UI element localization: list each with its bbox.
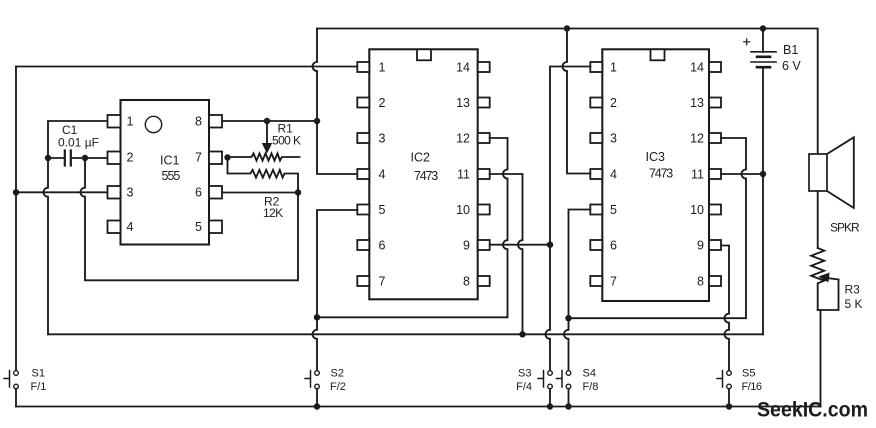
svg-text:3: 3 <box>127 185 134 199</box>
junction R1 top <box>264 118 270 124</box>
svg-text:8: 8 <box>697 274 704 288</box>
switch S3 contacts <box>548 371 553 376</box>
svg-text:13: 13 <box>690 96 704 110</box>
IC2 pin 9 stub <box>478 240 490 250</box>
junction IC2 pin9 / IC3 pin1 <box>547 242 553 248</box>
IC3 pin 1 stub <box>590 62 602 72</box>
svg-text:11: 11 <box>457 167 470 181</box>
junction IC3 pin11 / battery rail <box>760 171 766 177</box>
svg-text:7473: 7473 <box>649 167 673 181</box>
svg-text:7: 7 <box>195 150 202 164</box>
IC1 555 body <box>121 100 210 245</box>
svg-text:IC2: IC2 <box>411 151 431 165</box>
svg-text:9: 9 <box>463 238 470 252</box>
svg-text:7: 7 <box>610 274 617 288</box>
wire left rail down to S1 <box>15 67 17 371</box>
IC3 pin 2 stub <box>590 98 602 108</box>
battery B1 plus sign <box>744 39 750 45</box>
svg-text:IC3: IC3 <box>646 150 666 164</box>
junction pin3/left rail <box>13 189 19 195</box>
wire S2 to bus <box>316 389 318 407</box>
IC3 notch <box>651 49 665 60</box>
IC3 pin 9 stub <box>709 240 721 250</box>
potentiometer R1 wiper feed <box>266 121 268 145</box>
svg-text:5: 5 <box>610 203 617 217</box>
wire S5 to bus <box>728 389 730 407</box>
svg-text:10: 10 <box>456 203 470 217</box>
wire IC1 pin8 to Vcc node <box>222 120 317 122</box>
svg-text:555: 555 <box>162 169 181 183</box>
battery B1 minus lead down to ground bus <box>762 67 764 334</box>
wire S1 to bus <box>15 389 17 407</box>
svg-text:4: 4 <box>127 220 134 234</box>
svg-text:6: 6 <box>195 185 202 199</box>
potentiometer R3 body <box>811 248 824 310</box>
svg-text:4: 4 <box>610 167 617 181</box>
svg-text:10: 10 <box>690 203 704 217</box>
wire IC2 pin5 to F/2 node down to S2 <box>313 210 358 370</box>
svg-text:6: 6 <box>610 238 617 252</box>
potentiometer R1 wiper arrowhead <box>263 144 272 153</box>
speaker cone <box>827 137 854 208</box>
wire IC3 pin9 down to S5 <box>721 246 729 371</box>
IC2 pin 7 stub <box>357 276 369 286</box>
svg-text:0.01 µF: 0.01 µF <box>58 136 99 150</box>
label IC3 pin numbers <box>610 60 704 288</box>
svg-text:12K: 12K <box>263 206 283 220</box>
svg-text:B1: B1 <box>783 43 798 57</box>
switch S3 lever <box>538 371 544 388</box>
IC1 pin1 index circle <box>145 116 161 132</box>
IC2 pin 10 stub <box>478 205 490 215</box>
IC1 pin 5 stub <box>209 221 222 234</box>
capacitor C1 plates <box>65 151 71 166</box>
IC3 pin 8 stub <box>709 276 721 286</box>
switch S1 lever <box>4 371 10 388</box>
IC1 pin 1 stub <box>108 115 121 128</box>
label IC1 pin numbers <box>127 114 203 233</box>
wire speaker to R3 <box>817 191 819 248</box>
svg-text:5: 5 <box>379 203 386 217</box>
capacitor C1 right lead to IC1 pin2 <box>72 157 108 159</box>
IC3 pin 14 stub <box>709 62 721 72</box>
IC3 pin 12 stub <box>709 133 721 143</box>
svg-text:7: 7 <box>379 274 386 288</box>
IC3 pin 11 stub <box>709 169 721 179</box>
svg-text:13: 13 <box>456 96 470 110</box>
IC2 pin 12 stub <box>478 133 490 143</box>
IC2 pin 1 stub <box>357 62 369 72</box>
IC2 pin 14 stub <box>478 62 490 72</box>
svg-text:R3: R3 <box>845 283 861 297</box>
wire Vcc vertical to IC1 pin8 and IC2 pin4 <box>313 29 358 175</box>
resistor R2 <box>228 158 299 193</box>
wire IC1 pin3 to left rail <box>16 191 108 193</box>
junction C1 right <box>82 155 88 161</box>
svg-text:3: 3 <box>379 131 386 145</box>
wire S4 to bus <box>568 389 570 407</box>
svg-text:2: 2 <box>379 96 386 110</box>
label IC2 pin numbers <box>379 60 471 288</box>
battery B1 top lead <box>762 29 764 53</box>
wire IC1 pin6 to R2 node <box>222 192 298 194</box>
svg-text:SeekIC.com: SeekIC.com <box>757 398 868 422</box>
svg-text:S2: S2 <box>331 368 344 380</box>
svg-text:7473: 7473 <box>414 169 438 183</box>
IC3 pin 6 stub <box>590 240 602 250</box>
IC3 pin 13 stub <box>709 98 721 108</box>
svg-text:F/4: F/4 <box>516 381 532 393</box>
svg-text:9: 9 <box>697 238 704 252</box>
IC2 pin 4 stub <box>357 169 369 179</box>
svg-text:S3: S3 <box>518 368 531 380</box>
IC3 pin 7 stub <box>590 276 602 286</box>
junction R2/pin6 node <box>295 189 301 195</box>
IC3 pin 3 stub <box>590 133 602 143</box>
IC1 pin 8 stub <box>209 115 222 128</box>
svg-text:5 K: 5 K <box>845 297 863 311</box>
svg-text:5: 5 <box>195 220 202 234</box>
svg-text:500 K: 500 K <box>272 134 301 148</box>
svg-text:11: 11 <box>691 167 704 181</box>
junction S2 / audio bus <box>314 403 320 409</box>
wire IC3 pin12 to pin5 link <box>569 138 747 318</box>
svg-text:S1: S1 <box>32 368 45 380</box>
IC2 pin 2 stub <box>357 98 369 108</box>
svg-text:8: 8 <box>195 114 202 128</box>
svg-text:4: 4 <box>379 167 386 181</box>
IC2 pin 13 stub <box>478 98 490 108</box>
svg-text:6 V: 6 V <box>782 59 801 73</box>
svg-text:1: 1 <box>379 60 386 74</box>
wire S3 to bus <box>549 389 551 407</box>
wire IC1 pin1 to ground rail <box>44 121 108 334</box>
switch S2 lever <box>305 371 311 388</box>
junction C1 left <box>45 155 51 161</box>
svg-text:SPKR: SPKR <box>830 221 860 235</box>
junction S3 / audio bus <box>547 403 553 409</box>
svg-text:F/8: F/8 <box>583 381 599 393</box>
IC3 pin 10 stub <box>709 205 721 215</box>
junction IC2 pin5 link / S2 <box>314 314 320 320</box>
IC2 7473 body <box>369 49 477 299</box>
svg-text:6: 6 <box>379 238 386 252</box>
svg-text:2: 2 <box>610 96 617 110</box>
svg-text:F/2: F/2 <box>330 381 346 393</box>
IC2 pin 11 stub <box>478 169 490 179</box>
svg-text:S5: S5 <box>742 368 755 380</box>
potentiometer R3 wiper <box>827 278 839 280</box>
switch S4 contacts <box>566 371 571 376</box>
IC2 notch <box>417 49 431 60</box>
svg-text:14: 14 <box>456 60 470 74</box>
svg-text:12: 12 <box>690 131 704 145</box>
IC2 pin 5 stub <box>357 205 369 215</box>
potentiometer R1 body <box>228 153 300 160</box>
junction Vcc/IC1 pin8 <box>314 118 320 124</box>
IC2 pin 3 stub <box>357 133 369 143</box>
svg-text:1: 1 <box>610 60 617 74</box>
wire IC2 pin11 to ground bus <box>490 174 523 334</box>
IC3 pin 4 stub <box>590 169 602 179</box>
svg-text:12: 12 <box>456 131 470 145</box>
svg-text:S4: S4 <box>583 368 596 380</box>
IC3 7473 body <box>602 49 709 301</box>
switch S4 lever <box>557 371 563 388</box>
wire R3 wiper to bottom terminal <box>818 280 839 311</box>
wire Vcc top bus from IC1/IC2 supply to speaker <box>317 29 818 155</box>
wire IC3 pin11 to battery minus rail <box>721 173 763 175</box>
speaker SPKR frame <box>809 154 827 191</box>
wire audio bottom bus <box>16 406 821 408</box>
junction top bus / battery <box>760 25 766 31</box>
IC3 pin 5 stub <box>590 205 602 215</box>
IC2 pin 8 stub <box>478 276 490 286</box>
switch S5 contacts <box>727 371 732 376</box>
IC1 pin 2 stub <box>108 152 121 165</box>
battery B1 plates <box>751 52 776 62</box>
wire IC2 pin9 to IC3 pin1 node <box>490 244 550 246</box>
IC1 pin 3 stub <box>108 186 121 199</box>
switch S5 lever <box>717 371 723 388</box>
wire 555 output bus: IC2 pin1 to left rail <box>16 66 357 68</box>
svg-text:F/1: F/1 <box>31 381 47 393</box>
capacitor C1 left lead <box>48 157 64 159</box>
junction top bus / IC3 Vcc <box>564 25 570 31</box>
svg-text:1: 1 <box>127 114 134 128</box>
IC1 pin 6 stub <box>209 186 222 199</box>
IC1 pin 4 stub <box>108 221 121 234</box>
svg-text:3: 3 <box>610 131 617 145</box>
switch S1 contacts <box>14 371 19 376</box>
junction S4 / audio bus <box>565 403 571 409</box>
junction IC2 pin11 / ground bus <box>519 331 525 337</box>
switch S2 contacts <box>315 371 320 376</box>
wire IC3 pin1 down to S3 <box>546 67 591 371</box>
IC1 pin 7 stub <box>209 152 222 165</box>
svg-text:2: 2 <box>127 150 134 164</box>
wire R3 to audio bus <box>820 310 822 407</box>
wire IC2 pin12 to pin5 link <box>317 138 508 317</box>
wire C1/pin2 node down to pin6 loop <box>81 158 299 280</box>
svg-text:8: 8 <box>463 274 470 288</box>
IC2 pin 6 stub <box>357 240 369 250</box>
junction IC1 pin7 node <box>224 154 230 160</box>
wire ground bus <box>48 333 763 335</box>
svg-text:14: 14 <box>690 60 704 74</box>
svg-text:F/16: F/16 <box>742 381 762 393</box>
junction IC3 pin5 link / S4 <box>565 315 571 321</box>
junction S5 / audio bus <box>726 403 732 409</box>
svg-text:IC1: IC1 <box>160 154 180 168</box>
wire Vcc vertical to IC3 pin4 <box>563 29 591 174</box>
wire IC3 pin5 down to S4 <box>564 210 590 371</box>
